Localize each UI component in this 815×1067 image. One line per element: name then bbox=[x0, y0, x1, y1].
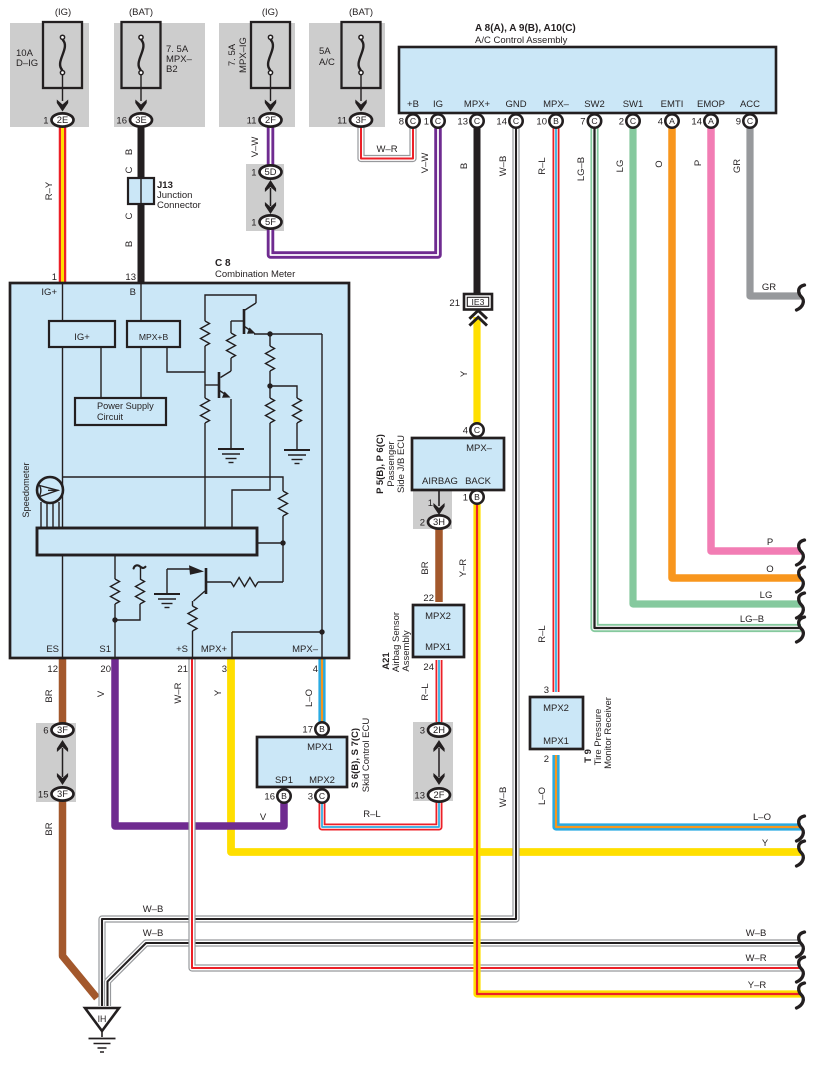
wire GR A/C ACC to right edge bbox=[750, 127, 801, 296]
svg-text:(IG): (IG) bbox=[55, 7, 71, 18]
svg-text:Y: Y bbox=[213, 689, 224, 696]
ground G3 bbox=[166, 569, 168, 594]
wire MPX+B right output bbox=[167, 347, 205, 372]
connector 2F bbox=[260, 113, 282, 126]
svg-text:3: 3 bbox=[222, 664, 227, 675]
svg-text:22: 22 bbox=[423, 593, 434, 604]
wire R6 to bus bar bbox=[204, 423, 206, 528]
node dot Q1 emitter bbox=[267, 331, 272, 336]
svg-text:17: 17 bbox=[302, 724, 313, 735]
wire R-Y fuse D-IG to combination meter IG+ bbox=[59, 126, 67, 284]
svg-text:C: C bbox=[124, 212, 135, 219]
svg-text:+S: +S bbox=[176, 644, 188, 655]
svg-text:16: 16 bbox=[264, 791, 275, 802]
svg-text:1: 1 bbox=[463, 492, 468, 503]
svg-text:IG+: IG+ bbox=[41, 287, 57, 298]
svg-text:LG–B: LG–B bbox=[576, 157, 587, 181]
svg-text:LG–B: LG–B bbox=[740, 614, 764, 625]
speedometer coil lines bbox=[40, 502, 42, 528]
svg-text:MPX–: MPX– bbox=[292, 644, 319, 655]
wire R1 to junction bbox=[204, 346, 206, 398]
svg-text:P: P bbox=[767, 537, 773, 548]
svg-text:BR: BR bbox=[44, 689, 55, 702]
svg-text:3E: 3E bbox=[135, 114, 146, 125]
svg-text:2F: 2F bbox=[434, 789, 445, 800]
svg-text:MPX+B: MPX+B bbox=[139, 332, 169, 342]
connector housing 3F/3F bbox=[36, 723, 76, 802]
svg-text:MPX1: MPX1 bbox=[307, 742, 333, 753]
svg-text:S1: S1 bbox=[99, 644, 111, 655]
resistor R1 bbox=[201, 321, 210, 346]
svg-text:Skid Control ECU: Skid Control ECU bbox=[361, 718, 372, 793]
svg-text:21: 21 bbox=[449, 298, 460, 309]
wire BR meter ES to 3F bbox=[59, 658, 67, 724]
svg-text:Monitor Receiver: Monitor Receiver bbox=[603, 697, 614, 769]
svg-text:EMOP: EMOP bbox=[697, 99, 725, 110]
ground G2 bbox=[284, 449, 310, 451]
resistor R7 bbox=[279, 491, 288, 516]
svg-text:IG: IG bbox=[433, 99, 443, 110]
svg-text:MPX+: MPX+ bbox=[201, 644, 228, 655]
svg-text:SW2: SW2 bbox=[584, 99, 605, 110]
svg-text:C: C bbox=[747, 116, 753, 126]
svg-text:GND: GND bbox=[505, 99, 526, 110]
svg-text:14: 14 bbox=[691, 116, 702, 127]
wire R4 to bus bar bbox=[232, 423, 270, 528]
wire L-O tire pressure receiver to right edge bbox=[556, 755, 801, 827]
svg-text:Circuit: Circuit bbox=[97, 412, 123, 422]
svg-text:R–L: R–L bbox=[537, 157, 548, 174]
svg-text:A: A bbox=[669, 116, 675, 126]
speedometer bbox=[37, 477, 63, 503]
wire W-B A/C GND to ground IH bbox=[102, 127, 516, 1006]
wire IG+ pin to IG+ block bbox=[62, 284, 64, 321]
svg-text:1: 1 bbox=[251, 217, 256, 228]
svg-text:V–W: V–W bbox=[250, 137, 261, 158]
wire Y IE3 to passenger J/B MPX- bbox=[473, 317, 480, 425]
block power supply circuit bbox=[75, 398, 166, 425]
svg-text:24: 24 bbox=[423, 662, 434, 673]
svg-text:B2: B2 bbox=[166, 64, 178, 75]
wire V-W fuse MPX-IG to 5D bbox=[267, 126, 275, 166]
connector housing 3H bbox=[413, 491, 452, 529]
top rail wire bbox=[205, 295, 256, 321]
svg-text:7. 5A: 7. 5A bbox=[227, 43, 238, 66]
svg-text:L–O: L–O bbox=[753, 812, 771, 823]
svg-text:MPX1: MPX1 bbox=[543, 736, 569, 747]
bus bar bbox=[37, 528, 257, 555]
svg-text:(IG): (IG) bbox=[262, 7, 278, 18]
svg-text:W–B: W–B bbox=[143, 928, 164, 939]
svg-text:3: 3 bbox=[420, 725, 425, 736]
svg-text:10: 10 bbox=[536, 116, 547, 127]
svg-text:1: 1 bbox=[424, 116, 429, 127]
skid control ECU box bbox=[257, 737, 347, 787]
connector 2E bbox=[52, 113, 74, 126]
svg-text:EMTI: EMTI bbox=[661, 99, 684, 110]
block MPX+B bbox=[127, 321, 180, 347]
passenger side J/B ECU box bbox=[412, 438, 504, 490]
svg-text:L–O: L–O bbox=[304, 689, 315, 707]
svg-text:B: B bbox=[124, 149, 135, 155]
svg-text:13: 13 bbox=[457, 116, 468, 127]
wire O A/C EMTI to right edge bbox=[672, 127, 801, 578]
svg-text:2: 2 bbox=[420, 517, 425, 528]
svg-text:Side J/B ECU: Side J/B ECU bbox=[396, 435, 407, 493]
wire IG+ rail horizontal bbox=[63, 477, 284, 491]
svg-text:IH: IH bbox=[98, 1014, 107, 1024]
svg-text:5D: 5D bbox=[265, 166, 277, 177]
wire B fuse MPX-B2 through J13 to meter B bbox=[138, 126, 145, 284]
svg-text:2H: 2H bbox=[433, 724, 445, 735]
arrow pair 3F-3F bbox=[62, 748, 64, 777]
svg-text:5A: 5A bbox=[319, 46, 331, 57]
svg-text:B: B bbox=[130, 287, 136, 298]
svg-text:C 8: C 8 bbox=[215, 258, 231, 269]
svg-text:C: C bbox=[630, 116, 636, 126]
svg-text:D–IG: D–IG bbox=[16, 58, 38, 69]
tire pressure monitor receiver box bbox=[530, 697, 583, 749]
svg-text:MPX1: MPX1 bbox=[425, 642, 451, 653]
wire R-L 2H to airbag sensor MPX1 bbox=[436, 660, 443, 722]
resistor R11 bbox=[188, 606, 197, 631]
svg-text:MPX2: MPX2 bbox=[425, 611, 451, 622]
node dot R7 bbox=[280, 540, 285, 545]
svg-text:3F: 3F bbox=[57, 788, 68, 799]
svg-text:1: 1 bbox=[428, 498, 433, 509]
ground G1 bbox=[218, 448, 244, 450]
fuse block housing (BAT) 7.5A MPX-B2 bbox=[114, 23, 205, 127]
arrow pair 2H-2F bbox=[438, 748, 440, 777]
svg-text:Y: Y bbox=[459, 370, 470, 377]
junction connector J13 bbox=[128, 178, 154, 204]
resistor R5 bbox=[293, 398, 302, 423]
wire Y-R passenger J/B BACK to right edge bbox=[477, 503, 801, 994]
svg-text:4: 4 bbox=[313, 664, 318, 675]
svg-text:V: V bbox=[260, 812, 267, 823]
wire R11 to +S pin bbox=[192, 631, 194, 658]
svg-text:L–O: L–O bbox=[537, 787, 548, 805]
svg-text:AIRBAG: AIRBAG bbox=[422, 476, 458, 487]
svg-text:W–R: W–R bbox=[745, 953, 766, 964]
wire MPX+ branch bbox=[231, 632, 233, 658]
resistor R4 bbox=[269, 386, 271, 398]
svg-text:MPX–IG: MPX–IG bbox=[238, 37, 249, 73]
svg-text:LG: LG bbox=[760, 590, 773, 601]
svg-text:GR: GR bbox=[732, 159, 743, 173]
svg-text:BR: BR bbox=[420, 561, 431, 574]
wire S1 with resistor R8 bbox=[114, 555, 116, 579]
svg-text:(BAT): (BAT) bbox=[129, 7, 153, 18]
connector housing 5D/5F bbox=[246, 164, 284, 231]
svg-text:BR: BR bbox=[44, 822, 55, 835]
connector 3E bbox=[130, 113, 152, 126]
wire B pin to MPX+B block bbox=[140, 284, 142, 321]
connector 3H bbox=[428, 515, 450, 528]
wire B A/C MPX+ pin to IE3 bbox=[474, 127, 481, 295]
svg-text:2E: 2E bbox=[57, 114, 68, 125]
transistor Q1 bbox=[243, 309, 246, 334]
connector 5F bbox=[260, 215, 282, 228]
svg-text:Connector: Connector bbox=[157, 200, 201, 211]
svg-text:C: C bbox=[513, 116, 519, 126]
svg-text:+B: +B bbox=[407, 99, 419, 110]
svg-text:15: 15 bbox=[38, 789, 49, 800]
svg-text:3: 3 bbox=[544, 685, 549, 696]
svg-text:C: C bbox=[435, 116, 441, 126]
connector housing 2H/2F bbox=[413, 722, 453, 801]
svg-text:11: 11 bbox=[337, 115, 347, 126]
wire W-R fuse A/C to A/C +B pin bbox=[361, 126, 413, 159]
svg-text:1: 1 bbox=[52, 272, 57, 283]
wire MPX+B to power supply bbox=[140, 347, 142, 398]
svg-text:13: 13 bbox=[125, 272, 136, 283]
svg-text:V: V bbox=[96, 690, 107, 697]
transistor Q3 PNP bbox=[205, 568, 208, 594]
svg-text:SP1: SP1 bbox=[275, 775, 293, 786]
wire L-O meter MPX- to skid control MPX1 bbox=[318, 658, 325, 723]
svg-text:9: 9 bbox=[736, 116, 741, 127]
svg-text:R–Y: R–Y bbox=[44, 181, 55, 200]
svg-text:W–R: W–R bbox=[376, 144, 397, 155]
svg-text:ACC: ACC bbox=[740, 99, 760, 110]
svg-text:A 8(A), A 9(B), A10(C): A 8(A), A 9(B), A10(C) bbox=[475, 23, 576, 34]
wire ES bbox=[62, 555, 64, 658]
fuse block housing (IG) 7.5A MPX-IG bbox=[219, 23, 295, 127]
svg-text:A/C Control Assembly: A/C Control Assembly bbox=[475, 35, 568, 46]
wire R-L skid control MPX2 to 2F bbox=[322, 802, 439, 827]
svg-text:4: 4 bbox=[463, 425, 468, 436]
passenger pin B 1 bbox=[470, 490, 483, 503]
airbag sensor assembly box bbox=[413, 605, 464, 657]
svg-text:C: C bbox=[474, 425, 480, 435]
svg-text:B: B bbox=[319, 724, 325, 734]
svg-text:MPX2: MPX2 bbox=[543, 703, 569, 714]
connector 3F upper bbox=[52, 723, 74, 736]
svg-text:5F: 5F bbox=[265, 216, 276, 227]
svg-text:Combination Meter: Combination Meter bbox=[215, 269, 295, 280]
svg-text:O: O bbox=[766, 564, 773, 575]
connector 5D bbox=[260, 165, 282, 178]
svg-text:P 5(B), P 6(C): P 5(B), P 6(C) bbox=[375, 434, 386, 494]
resistor R6 bbox=[201, 398, 210, 423]
svg-text:2F: 2F bbox=[265, 114, 276, 125]
svg-text:1: 1 bbox=[251, 167, 256, 178]
fuse block housing (IG) 10A D-IG bbox=[10, 23, 89, 127]
svg-text:B: B bbox=[553, 116, 559, 126]
connector IE3 bbox=[464, 294, 492, 310]
connector 3F bbox=[350, 113, 372, 126]
passenger pin C 4 bbox=[470, 423, 483, 436]
svg-text:W–R: W–R bbox=[173, 682, 184, 703]
svg-text:MPX+: MPX+ bbox=[464, 99, 491, 110]
wire BR 3F to ground IH bbox=[63, 800, 98, 998]
wire R7 to R10 bbox=[282, 516, 284, 582]
svg-text:P: P bbox=[693, 160, 704, 166]
resistor R3 bbox=[269, 334, 271, 346]
node dot MPX bbox=[319, 629, 324, 634]
svg-text:B: B bbox=[124, 241, 135, 247]
svg-text:C: C bbox=[319, 791, 325, 801]
svg-text:BACK: BACK bbox=[465, 476, 492, 487]
svg-text:A: A bbox=[708, 116, 714, 126]
svg-text:2: 2 bbox=[544, 754, 549, 765]
wire MPX node vertical bbox=[321, 334, 323, 658]
svg-text:S 6(B), S 7(C): S 6(B), S 7(C) bbox=[350, 728, 361, 788]
svg-text:6: 6 bbox=[43, 725, 48, 736]
svg-text:B: B bbox=[281, 791, 287, 801]
svg-text:16: 16 bbox=[116, 115, 127, 126]
svg-text:7: 7 bbox=[580, 116, 585, 127]
svg-text:B: B bbox=[459, 163, 470, 169]
wire LG A/C SW1 to right edge bbox=[633, 127, 801, 604]
svg-text:MPX–: MPX– bbox=[543, 99, 570, 110]
wire LG-B A/C SW2 to right edge bbox=[595, 127, 802, 628]
fuse block housing (BAT) 5A A/C bbox=[309, 23, 385, 127]
skid pin B 17 bbox=[315, 722, 328, 735]
svg-text:20: 20 bbox=[100, 664, 111, 675]
svg-text:3: 3 bbox=[308, 791, 313, 802]
svg-text:W–B: W–B bbox=[746, 928, 767, 939]
wire Q3 collector to R11 bbox=[192, 601, 194, 606]
wire Q2 emitter to ground bbox=[230, 399, 232, 449]
wire bus bar to node bbox=[257, 542, 283, 544]
svg-text:V–W: V–W bbox=[420, 153, 431, 174]
connector 2F bbox=[428, 788, 450, 801]
wire Y meter MPX+ to right edge bbox=[231, 658, 801, 852]
block IG+ bbox=[49, 321, 115, 347]
node dot 2 bbox=[267, 383, 272, 388]
svg-text:R–L: R–L bbox=[420, 683, 431, 700]
svg-text:C: C bbox=[124, 166, 135, 173]
svg-text:SW1: SW1 bbox=[623, 99, 644, 110]
wire node2 to R5 bbox=[270, 386, 297, 398]
wire Q1 emitter node bbox=[254, 333, 322, 335]
svg-text:MPX2: MPX2 bbox=[309, 775, 335, 786]
svg-text:C: C bbox=[591, 116, 597, 126]
svg-text:ES: ES bbox=[46, 644, 59, 655]
svg-text:LG: LG bbox=[615, 160, 626, 173]
wire BR 3H to airbag sensor MPX2 bbox=[435, 527, 443, 602]
skid pin B 16 bbox=[277, 789, 290, 802]
svg-text:MPX–: MPX– bbox=[466, 443, 493, 454]
svg-text:3F: 3F bbox=[356, 114, 367, 125]
svg-text:C: C bbox=[410, 116, 416, 126]
svg-text:IE3: IE3 bbox=[472, 297, 485, 307]
wire P A/C EMOP to right edge bbox=[711, 127, 801, 551]
svg-text:Y–R: Y–R bbox=[458, 559, 469, 578]
arrow pair 5D-5F bbox=[270, 188, 272, 206]
resistor R2 bbox=[230, 321, 232, 333]
svg-text:12: 12 bbox=[47, 664, 58, 675]
svg-text:R–L: R–L bbox=[537, 625, 548, 642]
skid pin C 3 bbox=[315, 789, 328, 802]
svg-text:14: 14 bbox=[496, 116, 507, 127]
svg-text:Y: Y bbox=[762, 838, 769, 849]
wire V meter S1 to skid control SP1 bbox=[115, 658, 284, 826]
svg-text:Y–R: Y–R bbox=[748, 980, 767, 991]
svg-text:Power Supply: Power Supply bbox=[97, 401, 154, 411]
wire W-R meter +S to right edge bbox=[192, 658, 801, 968]
chevrons below IE3 bbox=[469, 310, 487, 318]
svg-text:3H: 3H bbox=[433, 516, 445, 527]
svg-text:C: C bbox=[474, 116, 480, 126]
transistor Q2 bbox=[221, 371, 232, 378]
svg-text:O: O bbox=[654, 160, 665, 167]
svg-text:2: 2 bbox=[619, 116, 624, 127]
svg-text:4: 4 bbox=[658, 116, 663, 127]
svg-text:Assembly: Assembly bbox=[401, 630, 412, 671]
svg-text:Speedometer: Speedometer bbox=[21, 462, 31, 517]
resistor R10 bbox=[207, 581, 231, 583]
svg-text:B: B bbox=[474, 492, 480, 502]
svg-text:1: 1 bbox=[43, 115, 48, 126]
connector 3F lower bbox=[52, 787, 74, 800]
wire R-L A/C MPX- to tire pressure receiver bbox=[553, 127, 560, 692]
svg-text:R–L: R–L bbox=[363, 809, 380, 820]
svg-text:W–B: W–B bbox=[143, 904, 164, 915]
svg-text:13: 13 bbox=[414, 790, 425, 801]
svg-text:GR: GR bbox=[762, 282, 776, 293]
airbag arrow connector bbox=[438, 491, 440, 506]
svg-text:IG+: IG+ bbox=[74, 332, 90, 343]
wire W-B lower from right edge to ground IH bbox=[108, 943, 802, 1006]
svg-text:21: 21 bbox=[177, 664, 188, 675]
connector 2H bbox=[428, 723, 450, 736]
svg-text:3F: 3F bbox=[57, 724, 68, 735]
wire V-W 5F to A/C IG pin bbox=[271, 127, 439, 255]
wire IG+ block left output to bus bbox=[62, 347, 64, 528]
svg-text:W–B: W–B bbox=[498, 787, 509, 808]
svg-text:8: 8 bbox=[399, 116, 404, 127]
svg-text:A/C: A/C bbox=[319, 57, 335, 68]
svg-text:W–B: W–B bbox=[498, 156, 509, 177]
svg-text:(BAT): (BAT) bbox=[349, 7, 373, 18]
svg-text:11: 11 bbox=[247, 115, 257, 126]
ground IH bbox=[85, 1008, 119, 1031]
wire IG+ block to power supply bbox=[100, 347, 102, 398]
resistor R9 with pickup bbox=[140, 568, 142, 580]
